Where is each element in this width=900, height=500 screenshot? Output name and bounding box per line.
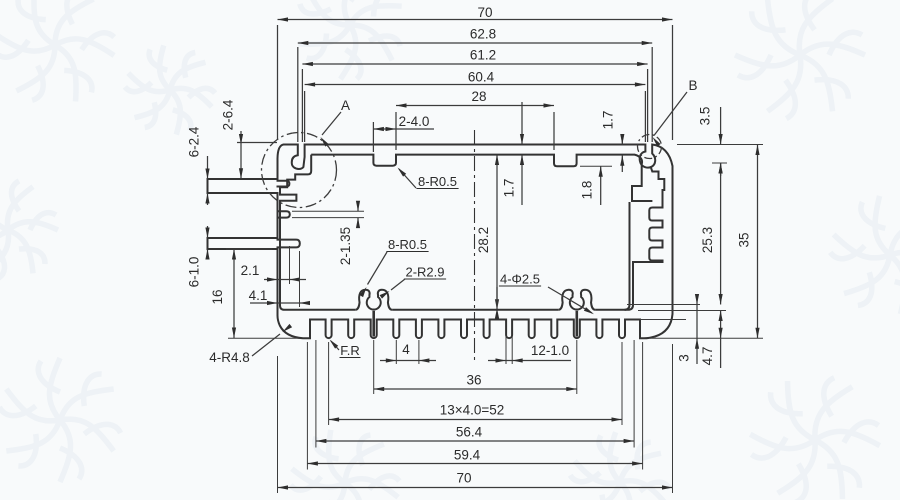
dim 6-1.0 xyxy=(207,226,209,238)
dim 1.7 mid xyxy=(521,155,523,206)
left wall small tooth (2-1.35) xyxy=(277,211,290,217)
svg-text:1.8: 1.8 xyxy=(580,181,595,200)
svg-text:35: 35 xyxy=(737,232,752,247)
screw boss hook 2 (4-dia2.5 keyhole) xyxy=(558,290,595,310)
dim 61.2 xyxy=(302,63,647,65)
right wall inner skin line xyxy=(625,202,630,310)
interior top wall surface and 2-4.0 notches xyxy=(311,155,652,201)
dim 28 xyxy=(396,105,554,107)
svg-text:4: 4 xyxy=(402,342,410,357)
svg-text:70: 70 xyxy=(456,471,471,486)
svg-text:8-R0.5: 8-R0.5 xyxy=(418,174,457,189)
interior floor segments xyxy=(392,309,558,311)
dim 62.8 xyxy=(298,42,652,44)
dim 59.4 xyxy=(307,463,642,465)
svg-text:28.2: 28.2 xyxy=(476,227,491,253)
dim 3 xyxy=(696,294,698,364)
screw channel slots through fins xyxy=(372,311,375,337)
svg-text:13×4.0=52: 13×4.0=52 xyxy=(440,403,505,418)
svg-text:2-6.4: 2-6.4 xyxy=(221,99,236,130)
svg-text:25.3: 25.3 xyxy=(700,227,715,253)
detail circle B xyxy=(638,135,662,159)
dim 2-4.0 xyxy=(373,128,434,130)
svg-text:1.7: 1.7 xyxy=(601,111,616,130)
svg-text:3.5: 3.5 xyxy=(698,107,713,126)
dim 2.1 xyxy=(264,279,306,281)
svg-text:F.R: F.R xyxy=(340,343,360,358)
svg-text:6-2.4: 6-2.4 xyxy=(187,126,202,157)
svg-text:8-R0.5: 8-R0.5 xyxy=(388,237,427,252)
dim 13x4.0=52 xyxy=(329,419,622,421)
svg-text:4.7: 4.7 xyxy=(700,347,715,366)
dim 4 xyxy=(380,360,436,362)
svg-text:70: 70 xyxy=(477,5,492,20)
svg-text:60.4: 60.4 xyxy=(468,70,495,85)
screw boss hook 1 (2-R2.9 keyhole) xyxy=(355,290,392,310)
dim 28.2 xyxy=(496,155,498,310)
svg-text:2.1: 2.1 xyxy=(241,263,260,278)
svg-text:4-R4.8: 4-R4.8 xyxy=(209,350,250,365)
dim 2-1.35 xyxy=(292,210,364,212)
svg-text:28: 28 xyxy=(471,89,486,104)
ext lines top xyxy=(277,25,279,140)
svg-text:2-1.35: 2-1.35 xyxy=(338,227,353,265)
ext right xyxy=(677,144,763,146)
dim 25.3 xyxy=(720,163,722,305)
dim 6-2.4 xyxy=(207,156,209,179)
svg-text:3: 3 xyxy=(677,354,692,362)
svg-text:1.7: 1.7 xyxy=(502,179,517,198)
extrusion profile outer outline with bottom heatsink fins xyxy=(208,145,673,339)
dim 1.8 xyxy=(600,166,602,205)
fin1 interior nub xyxy=(277,181,290,187)
svg-text:61.2: 61.2 xyxy=(470,48,496,63)
dim 36 xyxy=(374,388,577,390)
dim 16 xyxy=(226,248,272,250)
dim 3.5 xyxy=(720,107,722,145)
svg-text:4.1: 4.1 xyxy=(249,288,268,303)
svg-text:A: A xyxy=(341,98,350,113)
svg-text:6-1.0: 6-1.0 xyxy=(187,257,202,288)
dim 70 top xyxy=(278,19,673,21)
svg-text:2-R2.9: 2-R2.9 xyxy=(405,265,444,280)
svg-text:59.4: 59.4 xyxy=(454,448,481,463)
dim 56.4 xyxy=(316,440,634,442)
dim 12-1.0 xyxy=(488,360,571,362)
fin2 interior nub xyxy=(277,240,300,248)
svg-text:2-4.0: 2-4.0 xyxy=(399,114,430,129)
svg-text:B: B xyxy=(688,78,697,93)
dim 60.4 xyxy=(305,84,646,86)
dim 70 bottom xyxy=(278,487,673,489)
dim 1.7 right xyxy=(621,136,623,145)
svg-text:16: 16 xyxy=(210,289,225,304)
ext bottom xyxy=(395,340,397,364)
dim 35 xyxy=(757,145,759,339)
svg-text:12-1.0: 12-1.0 xyxy=(531,343,569,358)
svg-text:62.8: 62.8 xyxy=(470,27,496,42)
dim 4.1 xyxy=(250,302,307,304)
dim 2-6.4 xyxy=(240,131,242,179)
dim 4.7 xyxy=(720,311,722,369)
right wall staircase and card-slot comb teeth xyxy=(628,167,664,310)
vertical centerline xyxy=(474,130,476,362)
svg-text:36: 36 xyxy=(466,373,481,388)
left wall interior staircase below corner A and floor to first boss xyxy=(280,155,355,310)
svg-text:4-Φ2.5: 4-Φ2.5 xyxy=(500,272,540,287)
svg-text:56.4: 56.4 xyxy=(456,425,483,440)
detail circle A xyxy=(262,133,337,208)
